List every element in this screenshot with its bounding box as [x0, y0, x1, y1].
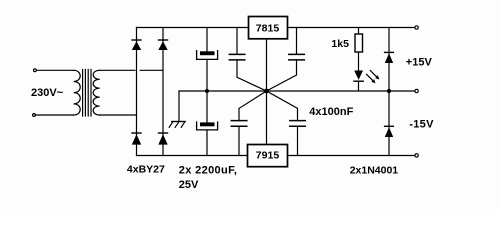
svg-text:+15V: +15V: [406, 56, 433, 68]
svg-text:230V~: 230V~: [31, 87, 64, 99]
svg-text:4xBY27: 4xBY27: [127, 164, 165, 176]
svg-text:7915: 7915: [256, 149, 280, 161]
svg-text:4x100nF: 4x100nF: [309, 106, 353, 118]
svg-text:2x 2200uF,: 2x 2200uF,: [179, 164, 238, 176]
svg-text:7815: 7815: [256, 22, 280, 34]
svg-text:-15V: -15V: [409, 118, 434, 130]
svg-text:25V: 25V: [179, 179, 199, 191]
svg-text:2x1N4001: 2x1N4001: [350, 165, 399, 177]
svg-text:1k5: 1k5: [331, 38, 349, 50]
